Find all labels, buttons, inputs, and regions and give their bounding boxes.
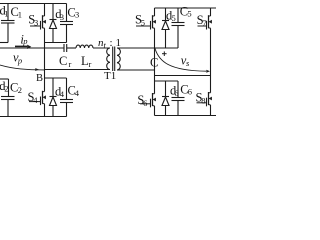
svg-text:3: 3 xyxy=(34,18,38,28)
svg-text:1: 1 xyxy=(18,9,22,19)
svg-text:T1: T1 xyxy=(104,70,116,82)
svg-text:4: 4 xyxy=(75,88,80,98)
svg-text:p: p xyxy=(22,36,27,46)
svg-text:4: 4 xyxy=(60,89,65,99)
svg-text:8: 8 xyxy=(201,96,205,106)
svg-text:s: s xyxy=(186,58,190,68)
svg-text:4: 4 xyxy=(33,95,38,105)
svg-text:C: C xyxy=(150,56,158,70)
svg-text:5: 5 xyxy=(172,13,176,23)
svg-text:5: 5 xyxy=(141,18,145,28)
svg-text::: : xyxy=(110,37,113,49)
svg-text:2: 2 xyxy=(4,84,8,94)
svg-text:6: 6 xyxy=(143,98,147,108)
svg-text:6: 6 xyxy=(174,88,178,98)
svg-text:1: 1 xyxy=(116,37,122,49)
svg-text:p: p xyxy=(17,56,22,66)
svg-text:1: 1 xyxy=(4,8,8,18)
svg-text:2: 2 xyxy=(18,85,22,95)
svg-text:L: L xyxy=(81,54,89,68)
svg-text:r: r xyxy=(69,59,72,69)
svg-text:3: 3 xyxy=(60,12,64,22)
svg-text:3: 3 xyxy=(75,9,79,19)
svg-text:r: r xyxy=(89,59,92,69)
svg-text:5: 5 xyxy=(187,9,191,19)
svg-text:B: B xyxy=(36,73,43,84)
svg-text:6: 6 xyxy=(188,87,192,97)
svg-text:7: 7 xyxy=(202,18,206,28)
svg-text:C: C xyxy=(59,54,67,68)
